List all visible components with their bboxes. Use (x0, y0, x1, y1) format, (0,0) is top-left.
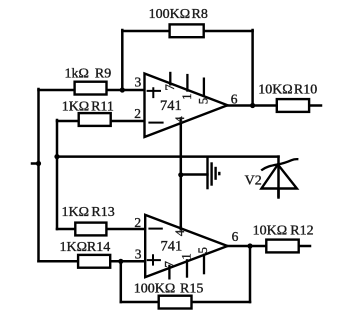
node output1 junction (250, 103, 255, 108)
node R14 junction (118, 259, 123, 264)
svg-text:6: 6 (232, 229, 239, 244)
wire V2 stem through triangle (277, 163, 280, 198)
wire output1 stub (310, 104, 321, 107)
wire pin4 vertical (180, 117, 183, 230)
wire bottom feedback (121, 301, 250, 304)
pin 4 tick U1 (180, 117, 183, 124)
svg-text:R10: R10 (294, 83, 317, 98)
svg-text:1KΩ: 1KΩ (62, 205, 90, 220)
svg-text:5: 5 (196, 98, 211, 105)
wire R14 line to pin 3 (39, 260, 146, 263)
svg-text:1: 1 (179, 253, 194, 260)
wire output2 (228, 245, 266, 248)
V2 slash curve (261, 159, 298, 170)
svg-text:R9: R9 (95, 66, 111, 81)
node pin4 ground junction (178, 172, 183, 177)
pin 1 tick U2 (186, 259, 188, 278)
svg-text:3: 3 (135, 246, 142, 261)
node rail2 mid junction (54, 154, 59, 159)
svg-text:100KΩ: 100KΩ (149, 7, 191, 22)
svg-text:R8: R8 (192, 7, 208, 22)
svg-text:7: 7 (161, 261, 176, 268)
svg-text:5: 5 (195, 247, 210, 254)
resistor R12 (253, 224, 314, 253)
svg-text:1KΩ: 1KΩ (62, 99, 90, 114)
svg-text:10KΩ: 10KΩ (253, 224, 288, 239)
svg-text:4: 4 (172, 116, 187, 123)
node output2 junction (247, 243, 252, 248)
pin 1 tick U1 (186, 74, 188, 92)
wire ground stub (181, 173, 208, 176)
wire left rail (37, 89, 40, 261)
svg-text:4: 4 (172, 229, 187, 236)
wire R9 input line to pin 3 (39, 89, 145, 92)
svg-text:2: 2 (134, 215, 141, 230)
resistor R14 (60, 240, 111, 268)
diode V2 (245, 159, 299, 197)
svg-text:R13: R13 (91, 205, 114, 220)
wire top feedback R8 horizontal (122, 30, 252, 33)
node R9/R8 junction (120, 87, 125, 92)
resistor R8 (149, 7, 208, 37)
wire R11 line to pin 2 (57, 120, 145, 123)
plus marker U1 (147, 87, 161, 98)
minus marker U2 (148, 228, 162, 230)
resistor R9 (65, 66, 112, 94)
svg-text:R14: R14 (87, 240, 110, 255)
op-amp U2 741 lower (134, 215, 238, 280)
wire R8 right vertical (251, 30, 254, 106)
wire V2 stem (277, 157, 280, 198)
svg-text:2: 2 (134, 106, 141, 121)
resistor R11 (62, 99, 114, 126)
svg-text:V2: V2 (245, 173, 262, 188)
op-amp U1 741 upper (134, 72, 238, 137)
wire R8 left vertical (121, 30, 124, 90)
pin 4 tick U2 (180, 226, 183, 231)
svg-text:741: 741 (161, 238, 183, 254)
svg-text:R12: R12 (290, 224, 313, 239)
svg-text:1KΩ: 1KΩ (60, 240, 88, 255)
pin 5 tick U1 (203, 78, 205, 97)
svg-text:3: 3 (135, 74, 142, 89)
svg-text:1kΩ: 1kΩ (65, 66, 89, 81)
pin 7 tick U2 (168, 265, 170, 280)
resistor R10 (258, 83, 317, 112)
node left rail terminal (36, 161, 41, 166)
svg-text:1: 1 (179, 93, 194, 100)
wire second rail (56, 120, 59, 229)
svg-text:R11: R11 (91, 99, 114, 114)
wire R13 line to pin 2 (57, 228, 145, 231)
svg-text:100KΩ: 100KΩ (134, 282, 176, 297)
wire input terminal stub (32, 162, 39, 165)
wire drop to bottom feedback (120, 261, 123, 302)
svg-text:7: 7 (162, 84, 177, 91)
svg-text:6: 6 (231, 91, 238, 106)
pin 7 tick U1 (169, 72, 171, 86)
wire right riser (249, 246, 252, 302)
resistor R13 (62, 205, 115, 236)
plus marker U2 (147, 254, 161, 265)
wire output1 (228, 104, 276, 107)
node junction dots (36, 87, 255, 264)
wire output2 stub (300, 245, 310, 248)
resistor R15 (134, 282, 204, 309)
ground (208, 157, 220, 189)
minus marker U1 (148, 122, 163, 124)
wire mid horizontal to V2 (57, 155, 279, 158)
svg-text:10KΩ: 10KΩ (258, 83, 293, 98)
svg-text:R15: R15 (180, 282, 203, 297)
pin 5 tick U2 (203, 254, 205, 275)
